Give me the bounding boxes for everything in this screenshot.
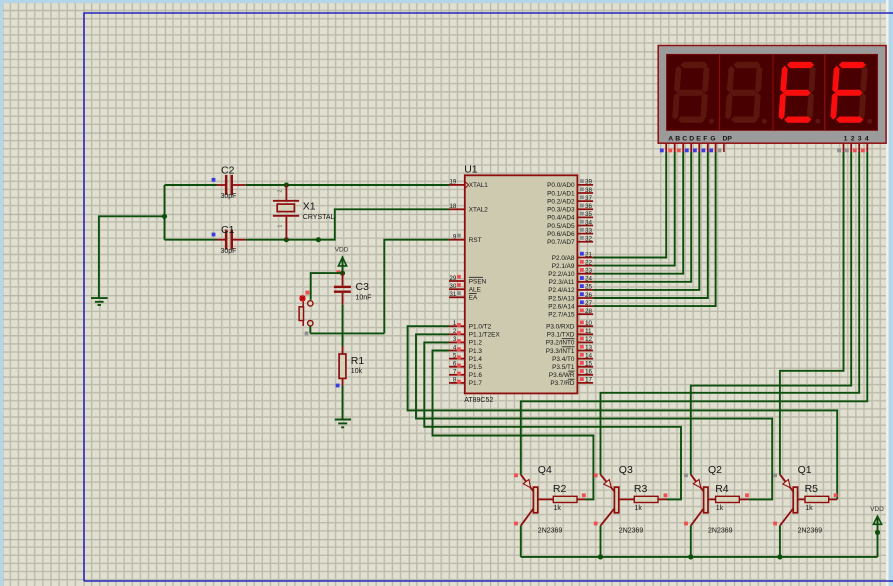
svg-text:AT89C52: AT89C52 bbox=[464, 397, 493, 404]
svg-text:RST: RST bbox=[469, 237, 482, 244]
svg-text:U1: U1 bbox=[464, 163, 478, 175]
svg-text:DP: DP bbox=[723, 135, 733, 142]
junction rail Q3 bbox=[598, 554, 603, 559]
pin 34 P0.5/AD5 bbox=[547, 219, 593, 230]
wire P1.1 to base resistor bbox=[416, 334, 772, 499]
svg-text:1k: 1k bbox=[716, 505, 724, 512]
window frame right bbox=[886, 0, 889, 586]
svg-text:P0.2/AD2: P0.2/AD2 bbox=[547, 198, 575, 205]
wire segment E to pin 25 bbox=[593, 152, 699, 290]
svg-text:1: 1 bbox=[453, 320, 457, 327]
svg-text:P2.1/A9: P2.1/A9 bbox=[552, 263, 575, 270]
pin 31 EA bbox=[449, 291, 478, 302]
svg-text:27: 27 bbox=[585, 300, 593, 307]
svg-text:2N2369: 2N2369 bbox=[538, 527, 563, 534]
svg-text:29: 29 bbox=[449, 275, 457, 282]
svg-text:P2.2/A10: P2.2/A10 bbox=[548, 271, 575, 278]
svg-text:P3.7/RD: P3.7/RD bbox=[550, 380, 575, 387]
svg-text:3: 3 bbox=[858, 135, 862, 142]
svg-text:VDD: VDD bbox=[870, 506, 884, 513]
svg-text:2: 2 bbox=[278, 190, 284, 193]
svg-text:1: 1 bbox=[844, 135, 848, 142]
transistor Q2 2N2369 bbox=[684, 464, 733, 534]
svg-text:Q1: Q1 bbox=[798, 464, 812, 476]
svg-text:P0.6/AD6: P0.6/AD6 bbox=[547, 231, 575, 238]
svg-text:D: D bbox=[689, 135, 694, 142]
wire C2-C1 left vertical bbox=[164, 185, 166, 240]
svg-text:17: 17 bbox=[585, 377, 593, 384]
junction rail Q2 bbox=[688, 554, 693, 559]
window frame top bbox=[0, 0, 893, 3]
svg-text:1k: 1k bbox=[554, 505, 562, 512]
pin 25 P2.4/A12 bbox=[548, 284, 593, 295]
svg-text:1: 1 bbox=[278, 225, 284, 228]
svg-text:R1: R1 bbox=[351, 355, 365, 367]
svg-text:3: 3 bbox=[453, 336, 457, 343]
svg-text:P1.5: P1.5 bbox=[469, 364, 483, 371]
svg-text:P1.0/T2: P1.0/T2 bbox=[469, 324, 492, 331]
svg-text:24: 24 bbox=[585, 276, 593, 283]
svg-text:15: 15 bbox=[585, 361, 593, 368]
display digit 4 bbox=[831, 62, 873, 124]
display pin DP stub bbox=[718, 143, 724, 152]
display pin D stub bbox=[685, 143, 691, 152]
svg-text:2: 2 bbox=[851, 135, 855, 142]
wire digit4 to transistor bbox=[521, 152, 868, 475]
display pin B stub bbox=[668, 143, 674, 152]
wire digit3 to transistor bbox=[601, 152, 860, 475]
svg-text:10k: 10k bbox=[351, 368, 363, 375]
svg-text:G: G bbox=[710, 135, 715, 142]
svg-text:11: 11 bbox=[585, 328, 592, 335]
svg-text:33: 33 bbox=[585, 227, 593, 234]
svg-text:R4: R4 bbox=[715, 483, 729, 495]
svg-text:VDD: VDD bbox=[335, 247, 349, 254]
display pin F stub bbox=[702, 143, 708, 152]
svg-text:30pF: 30pF bbox=[221, 248, 237, 255]
svg-text:P3.1/TXD: P3.1/TXD bbox=[547, 332, 575, 339]
pin 24 P2.3/A11 bbox=[549, 276, 593, 287]
wire R1 to ground bbox=[342, 386, 344, 419]
pin 18 XTAL2 bbox=[449, 203, 488, 214]
pin 21 P2.0/A8 bbox=[552, 251, 593, 262]
wire VDD junction to button top bbox=[311, 273, 343, 300]
pin 4 P1.3 bbox=[449, 344, 482, 355]
display pin E stub bbox=[693, 143, 699, 152]
wire C2 to XTAL1 pin19 bbox=[246, 184, 449, 186]
button red actuator marker bbox=[299, 291, 309, 302]
svg-text:10: 10 bbox=[585, 320, 593, 327]
state square VDD junction bbox=[336, 270, 340, 274]
display digit 2 bbox=[725, 62, 767, 124]
resistor R5 bbox=[798, 483, 838, 512]
wire Q1 collector to rail bbox=[779, 526, 781, 557]
svg-text:34: 34 bbox=[585, 219, 593, 226]
svg-text:P0.4/AD4: P0.4/AD4 bbox=[547, 215, 575, 222]
wire emitter rail to VDD bbox=[521, 556, 878, 558]
svg-text:P2.3/A11: P2.3/A11 bbox=[549, 279, 575, 286]
pin 5 P1.4 bbox=[449, 352, 482, 363]
junction VDD/C3/button bbox=[340, 271, 345, 276]
display digit 3 bbox=[779, 62, 821, 124]
svg-text:P1.6: P1.6 bbox=[469, 372, 483, 379]
svg-text:B: B bbox=[675, 135, 680, 142]
resistor R2 bbox=[538, 483, 586, 512]
junction crystal bottom bbox=[284, 237, 289, 242]
junction rail Q1 bbox=[777, 554, 782, 559]
pin 2 P1.1/T2EX bbox=[449, 328, 500, 339]
pin 9 RST bbox=[449, 234, 482, 245]
pin 38 P0.1/AD1 bbox=[547, 187, 593, 198]
svg-text:2: 2 bbox=[453, 328, 457, 335]
svg-text:C2: C2 bbox=[221, 164, 235, 176]
wire Q2 collector to rail bbox=[690, 526, 692, 557]
svg-text:1k: 1k bbox=[805, 505, 813, 512]
junction node XTAL2 net bbox=[316, 237, 321, 242]
wire button bottom stub bbox=[309, 326, 311, 333]
svg-text:32: 32 bbox=[585, 236, 593, 243]
svg-text:P2.4/A12: P2.4/A12 bbox=[548, 287, 575, 294]
svg-text:22: 22 bbox=[585, 259, 593, 266]
svg-text:P3.2/INT0: P3.2/INT0 bbox=[546, 340, 575, 347]
svg-text:P2.5/A13: P2.5/A13 bbox=[548, 295, 575, 302]
svg-text:C: C bbox=[682, 135, 687, 142]
junction VDD rail bbox=[875, 530, 880, 535]
svg-text:30: 30 bbox=[449, 283, 457, 290]
pin 35 P0.4/AD4 bbox=[547, 211, 593, 222]
svg-text:XTAL1: XTAL1 bbox=[469, 182, 489, 189]
svg-text:31: 31 bbox=[449, 291, 457, 298]
junction C1/C2/gnd bbox=[162, 214, 167, 219]
svg-text:ALE: ALE bbox=[469, 287, 481, 294]
pin 15 P3.5/T1 bbox=[552, 361, 593, 372]
wire Q4 collector to rail bbox=[520, 526, 522, 557]
pin 7 P1.6 bbox=[449, 369, 482, 380]
wire to ground GND1 bbox=[99, 216, 165, 297]
window frame left bbox=[0, 0, 3, 586]
transistor Q3 2N2369 bbox=[594, 464, 644, 534]
7-segment display module frame bbox=[658, 46, 886, 144]
pin 3 P1.2 bbox=[449, 336, 482, 347]
wire segment A to pin 21 bbox=[593, 152, 666, 258]
svg-text:PSEN: PSEN bbox=[469, 278, 487, 285]
pin 33 P0.6/AD6 bbox=[547, 227, 593, 238]
svg-text:P1.2: P1.2 bbox=[469, 340, 483, 347]
svg-text:5: 5 bbox=[453, 352, 457, 359]
transistor Q4 2N2369 bbox=[514, 464, 562, 534]
svg-text:EA: EA bbox=[469, 295, 478, 302]
pin 1 P1.0/T2 bbox=[449, 320, 492, 331]
svg-text:1k: 1k bbox=[635, 505, 643, 512]
svg-text:P3.6/WR: P3.6/WR bbox=[549, 372, 575, 379]
svg-text:CRYSTAL: CRYSTAL bbox=[303, 214, 335, 221]
svg-text:2N2369: 2N2369 bbox=[708, 527, 733, 534]
svg-text:P0.3/AD3: P0.3/AD3 bbox=[547, 207, 575, 214]
pin 37 P0.2/AD2 bbox=[547, 195, 593, 206]
junction crystal top bbox=[284, 182, 289, 187]
power VDD symbol (rail) bbox=[870, 506, 884, 557]
svg-text:P0.5/AD5: P0.5/AD5 bbox=[547, 223, 575, 230]
svg-text:13: 13 bbox=[585, 344, 593, 351]
svg-text:P1.7: P1.7 bbox=[469, 380, 483, 387]
svg-text:P3.5/T1: P3.5/T1 bbox=[552, 364, 575, 371]
svg-text:P1.3: P1.3 bbox=[469, 348, 483, 355]
wire segment B to pin 22 bbox=[593, 152, 675, 266]
wire P1.0 to base resistor bbox=[408, 326, 838, 499]
wire digit2 to transistor bbox=[691, 152, 851, 475]
svg-text:2N2369: 2N2369 bbox=[798, 527, 823, 534]
display pin digit3 stub bbox=[853, 143, 859, 152]
push button SW bbox=[299, 301, 313, 326]
svg-text:C3: C3 bbox=[356, 281, 370, 293]
svg-text:9: 9 bbox=[453, 234, 457, 241]
svg-text:P3.3/INT1: P3.3/INT1 bbox=[546, 348, 575, 355]
display digit 1 bbox=[672, 62, 714, 124]
pin 19 XTAL1 bbox=[449, 179, 488, 190]
pin 19 clock chevron bbox=[465, 182, 468, 188]
svg-text:P2.0/A8: P2.0/A8 bbox=[552, 255, 575, 262]
pin 11 P3.1/TXD bbox=[547, 328, 593, 339]
wire P1.3 to base resistor bbox=[433, 351, 594, 500]
wire P1.2 to base resistor bbox=[424, 342, 681, 499]
display pin digit2 stub bbox=[845, 143, 851, 152]
display segment labels ABCDEFG DP bbox=[668, 135, 732, 142]
svg-text:P1.1/T2EX: P1.1/T2EX bbox=[469, 332, 501, 339]
svg-text:P3.0/RXD: P3.0/RXD bbox=[546, 324, 575, 331]
svg-text:39: 39 bbox=[585, 179, 593, 186]
svg-text:P3.4/T0: P3.4/T0 bbox=[552, 356, 575, 363]
power VDD symbol (RST net) bbox=[335, 247, 349, 274]
crystal X1 bbox=[273, 185, 335, 240]
svg-text:7: 7 bbox=[453, 369, 457, 376]
pin 28 P2.7/A15 bbox=[548, 308, 593, 319]
svg-text:23: 23 bbox=[585, 268, 593, 275]
svg-text:Q2: Q2 bbox=[708, 464, 722, 476]
pin 23 P2.2/A10 bbox=[548, 268, 593, 279]
pin 39 P0.0/AD0 bbox=[547, 179, 593, 190]
pin 14 P3.4/T0 bbox=[552, 352, 593, 363]
svg-text:Q4: Q4 bbox=[538, 464, 552, 476]
pin 6 P1.5 bbox=[449, 361, 482, 372]
svg-text:12: 12 bbox=[585, 336, 593, 343]
display pin C stub bbox=[677, 143, 683, 152]
svg-text:R5: R5 bbox=[805, 483, 819, 495]
svg-text:14: 14 bbox=[585, 352, 593, 359]
pin 22 P2.1/A9 bbox=[552, 259, 593, 270]
svg-text:6: 6 bbox=[453, 361, 457, 368]
capacitor C2 bbox=[165, 164, 246, 200]
wire segment F to pin 26 bbox=[593, 152, 708, 298]
pin 8 P1.7 bbox=[449, 377, 482, 388]
pin 17 P3.7/RD bbox=[550, 377, 593, 388]
svg-text:E: E bbox=[696, 135, 701, 142]
wire segment G to pin 27 bbox=[593, 152, 716, 306]
transistor Q1 2N2369 bbox=[773, 464, 822, 534]
wire digit1 to transistor bbox=[780, 152, 844, 475]
wire Q3 collector to rail bbox=[600, 526, 602, 557]
svg-text:19: 19 bbox=[449, 179, 457, 186]
pin 26 P2.5/A13 bbox=[548, 292, 593, 303]
svg-text:18: 18 bbox=[449, 203, 457, 210]
svg-text:Q3: Q3 bbox=[619, 464, 633, 476]
pin 13 P3.3/INT1 bbox=[546, 344, 593, 355]
pin 30 ALE bbox=[449, 283, 481, 294]
svg-text:R2: R2 bbox=[553, 483, 567, 495]
pin 12 P3.2/INT0 bbox=[546, 336, 593, 347]
pin 10 P3.0/RXD bbox=[546, 320, 593, 331]
wire segment C to pin 23 bbox=[593, 152, 683, 274]
svg-text:37: 37 bbox=[585, 195, 593, 202]
pin 36 P0.3/AD3 bbox=[547, 203, 593, 214]
svg-text:2N2369: 2N2369 bbox=[619, 527, 644, 534]
pin 16 P3.6/WR bbox=[549, 369, 593, 380]
svg-text:8: 8 bbox=[453, 377, 457, 384]
pin 32 P0.7/AD7 bbox=[547, 236, 593, 247]
resistor R3 bbox=[619, 483, 668, 512]
svg-text:X1: X1 bbox=[303, 201, 316, 213]
wire RST pin9 bbox=[384, 240, 449, 334]
svg-text:F: F bbox=[703, 135, 707, 142]
svg-text:26: 26 bbox=[585, 292, 593, 299]
svg-text:36: 36 bbox=[585, 203, 593, 210]
svg-text:21: 21 bbox=[585, 251, 593, 258]
svg-text:4: 4 bbox=[865, 135, 869, 142]
resistor R4 bbox=[708, 483, 749, 512]
svg-text:P0.1/AD1: P0.1/AD1 bbox=[547, 190, 575, 197]
svg-text:10nF: 10nF bbox=[356, 295, 372, 302]
svg-text:35: 35 bbox=[585, 211, 593, 218]
capacitor C3 bbox=[334, 273, 372, 305]
wire C3 to R1 bbox=[342, 305, 344, 346]
pin 29 PSEN bbox=[449, 275, 487, 286]
state square button bottom bbox=[305, 332, 309, 336]
svg-text:38: 38 bbox=[585, 187, 593, 194]
display pin digit1 stub bbox=[837, 143, 843, 152]
svg-text:P2.6/A14: P2.6/A14 bbox=[548, 303, 575, 310]
display digit labels 1 2 3 4 bbox=[844, 135, 869, 142]
svg-text:P0.0/AD0: P0.0/AD0 bbox=[547, 182, 575, 189]
svg-text:P1.4: P1.4 bbox=[469, 356, 483, 363]
ground GND1 bbox=[91, 298, 108, 305]
svg-text:30pF: 30pF bbox=[221, 193, 237, 200]
capacitor C1 bbox=[165, 224, 246, 255]
pin 27 P2.6/A14 bbox=[548, 300, 593, 311]
wire button to RST net bbox=[310, 332, 384, 334]
svg-text:25: 25 bbox=[585, 284, 593, 291]
display pin digit4 stub bbox=[861, 143, 867, 152]
ground GND2 bbox=[335, 420, 351, 428]
display pin G stub bbox=[709, 143, 715, 152]
op-amp U1 AT89C52 microcontroller body bbox=[464, 163, 577, 404]
svg-text:A: A bbox=[668, 135, 673, 142]
svg-text:XTAL2: XTAL2 bbox=[469, 207, 489, 214]
svg-text:28: 28 bbox=[585, 308, 593, 315]
svg-text:4: 4 bbox=[453, 344, 457, 351]
svg-text:P2.7/A15: P2.7/A15 bbox=[548, 312, 575, 319]
wire segment D to pin 24 bbox=[593, 152, 691, 282]
resistor R1 bbox=[336, 346, 365, 387]
svg-text:R3: R3 bbox=[634, 483, 648, 495]
display pin A stub bbox=[660, 143, 666, 152]
svg-text:P0.7/AD7: P0.7/AD7 bbox=[547, 239, 575, 246]
svg-text:16: 16 bbox=[585, 369, 593, 376]
svg-text:C1: C1 bbox=[221, 224, 235, 236]
wire C1 to XTAL2 pin18 bbox=[246, 209, 449, 239]
